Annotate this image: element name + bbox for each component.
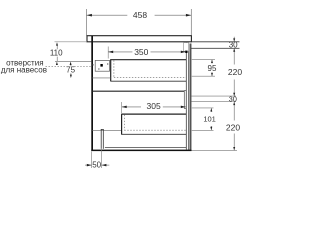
dimension 101 extension bottom	[192, 129, 214, 131]
top front hole (black square)	[185, 51, 187, 53]
svg-text:30: 30	[229, 41, 238, 50]
dimension 75 line	[70, 65, 72, 67]
lower drawer bottom solid	[122, 133, 187, 135]
rear support bracket (inverted U)	[100, 129, 102, 148]
arrow up at 101.7	[233, 102, 235, 105]
dimension 50 extension right	[101, 149, 103, 168]
dimension 50 line left tail	[85, 164, 92, 166]
upper drawer bottom solid	[111, 80, 187, 82]
upper drawer box left edge	[110, 60, 112, 82]
cabinet back edge (thick vertical left)	[91, 36, 93, 151]
cabinet bottom edge (thick)	[91, 150, 191, 152]
dimension 305 arrow left	[122, 106, 127, 109]
dimension 305 arrow right	[181, 106, 186, 109]
upper drawer bottom line left segment	[92, 77, 111, 79]
right slide block at divider	[184, 91, 186, 109]
dimension 95 extension bottom	[192, 75, 215, 77]
svg-text:305: 305	[147, 101, 161, 111]
text 30 top	[229, 42, 238, 47]
dashed leader line to hanger holes	[46, 66, 68, 68]
dimension 350 line	[108, 51, 132, 53]
dimension 458 arrow right	[186, 14, 191, 17]
svg-text:220: 220	[228, 67, 242, 77]
svg-text:350: 350	[134, 47, 148, 57]
arrow up at 48.3	[233, 48, 235, 51]
dimension 458 arrow left	[87, 14, 92, 17]
svg-text:220: 220	[226, 122, 240, 132]
upper drawer box top edge	[110, 59, 186, 61]
top front slide bracket	[184, 43, 189, 52]
drawer front outer vertical	[190, 44, 192, 151]
hanger bracket screw dot 2	[98, 68, 99, 69]
dimension 75 arrow top	[70, 62, 72, 65]
svg-text:75: 75	[66, 66, 75, 75]
dimension 101 line	[210, 108, 212, 112]
dimension 350 extension left	[107, 47, 109, 59]
lower drawer box top edge	[122, 113, 187, 115]
right chain extension y=41.8	[192, 41, 240, 43]
dimension 50 arrow right	[102, 164, 107, 167]
arrow down at 150.4	[233, 147, 235, 150]
dimension 95 extension top	[192, 59, 215, 61]
svg-text:50: 50	[92, 161, 101, 170]
right chain extension y=101.7	[192, 101, 237, 103]
right chain extension y=96.1	[192, 95, 237, 97]
dimension 350 arrow left	[108, 51, 113, 54]
text 30 bottom	[229, 97, 238, 102]
dimension 50 arrow left	[87, 164, 92, 167]
upper drawer hidden vertical	[113, 60, 115, 77]
arrow down at 96.1	[233, 93, 235, 96]
bracket top extension line	[55, 60, 91, 62]
small mark on back panel	[93, 64, 94, 66]
hanger bracket	[95, 60, 109, 71]
dimension 95 line	[211, 60, 213, 63]
right chain extension y=150.4	[192, 149, 238, 151]
dimension 50 line right tail	[102, 164, 110, 166]
hanger hole (black square)	[100, 64, 102, 67]
svg-text:для навесов: для навесов	[1, 66, 47, 75]
dimension 305 line	[122, 106, 141, 108]
dimension 458 extension line right	[190, 9, 192, 35]
hanger bracket screw dot 1	[107, 63, 108, 64]
dimension 458 extension line left	[86, 9, 88, 36]
svg-text:30: 30	[229, 94, 237, 103]
dimension 458 line	[87, 14, 128, 16]
dimension 110 arrow top	[56, 42, 58, 45]
side panel front edge (inner thin vertical)	[185, 42, 187, 150]
lower drawer box left edge	[121, 114, 123, 135]
arrow down at 41.8	[233, 38, 235, 41]
top panel	[87, 36, 191, 42]
extension line for 110 (panel bottom extended left)	[55, 41, 88, 43]
hidden line lower left	[92, 129, 121, 131]
bottom panel top edge	[105, 147, 186, 149]
middle divider	[92, 90, 186, 92]
dimension 95 arrow top	[211, 60, 213, 63]
dimension 101 arrow top	[210, 108, 212, 111]
dimension 75 arrow bottom	[70, 75, 72, 78]
dimension 305 extension left	[121, 102, 123, 114]
svg-text:110: 110	[50, 49, 63, 58]
lower drawer hidden bottom	[124, 129, 186, 131]
dimension 101 extension top	[192, 107, 214, 109]
right chain extension y=48.3	[191, 47, 240, 49]
dimension 101 arrow bottom	[210, 127, 212, 130]
upper drawer hidden bottom	[114, 77, 186, 79]
svg-text:101: 101	[203, 115, 216, 124]
dimension 95 arrow bottom	[211, 73, 213, 76]
lower drawer hidden vertical	[123, 115, 125, 131]
svg-text:458: 458	[133, 10, 147, 20]
dimension 110 line	[56, 45, 58, 49]
svg-text:95: 95	[208, 64, 217, 73]
dimension 50 extension left	[91, 151, 93, 168]
drawer front inner vertical	[188, 44, 190, 151]
dimension 110 arrow bottom	[56, 62, 58, 65]
dimension 350 arrow right	[181, 51, 186, 54]
right chain dimension line segments	[233, 37, 235, 42]
